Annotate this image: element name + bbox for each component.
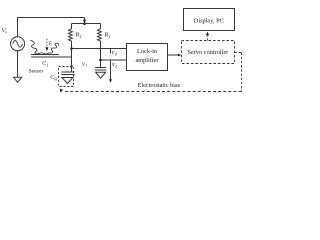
node V2 dot (99, 59, 102, 62)
tick for Vd (110, 49, 112, 54)
svg-text:CB: CB (50, 75, 57, 81)
wire node V2 to lock-in (101, 59, 127, 61)
svg-text:amplifier: amplifier (135, 57, 159, 64)
svg-text:Sensor: Sensor (29, 68, 44, 74)
wire bridge top bar (72, 23, 101, 25)
V2 arrow line down (110, 60, 112, 80)
dashed bias stub from servo right (235, 52, 242, 54)
wire node V1 to lock-in (72, 48, 127, 50)
bias arrowhead to sensor (60, 89, 64, 93)
wire lock-in to servo (168, 54, 180, 56)
wire R2 leg down (100, 42, 102, 68)
ground under C2 (96, 72, 106, 78)
wire rail drop with arrow (84, 18, 86, 21)
node V1 dot (70, 47, 73, 50)
F arrowhead (45, 47, 48, 51)
capacitor C2 plates (95, 67, 106, 69)
wire source bottom to ground (17, 50, 19, 77)
svg-text:F: F (48, 41, 53, 47)
svg-text:V1: V1 (82, 62, 87, 68)
svg-text:R1: R1 (76, 33, 82, 39)
force F dashed arrow (46, 39, 48, 48)
dashed bias bottom line (64, 91, 242, 93)
svg-text:R2: R2 (104, 33, 110, 39)
svg-text:Servo controller: Servo controller (188, 49, 230, 56)
label Vd (111, 50, 117, 56)
arrowhead into bridge (83, 20, 86, 24)
sensor membrane wavy line (31, 40, 59, 54)
label R2 (104, 33, 110, 39)
ground under CB (62, 78, 73, 84)
display PC box (184, 9, 235, 31)
svg-text:Lock-in: Lock-in (137, 48, 158, 55)
AC source sine wave (13, 41, 23, 48)
svg-text:Display, PC: Display, PC (194, 17, 224, 24)
svg-text:C1: C1 (42, 61, 48, 67)
label Sensor (29, 68, 44, 74)
wire sensor branch vertical (71, 49, 73, 73)
label C1 (42, 61, 48, 67)
label R1 (76, 33, 82, 39)
label Vs (2, 27, 8, 34)
AC source V1 circle (11, 37, 25, 51)
node CB junction dot (70, 65, 73, 68)
capacitor CB plates (62, 71, 75, 73)
label Electrostatic bias (138, 82, 181, 89)
dashed box around CB (59, 67, 74, 87)
V2 arrowhead (109, 79, 112, 83)
label CB (50, 75, 57, 81)
dashed bias right vertical (241, 53, 243, 92)
wire top rail (18, 17, 85, 19)
capacitor C1 bottom plate / wire to node V1 (31, 56, 72, 58)
resistor R1 (69, 24, 73, 49)
servo controller dashed box (182, 41, 235, 64)
arrowhead into servo (178, 54, 182, 57)
svg-text:Electrostatic bias: Electrostatic bias (138, 82, 181, 89)
lock-in amplifier box (127, 44, 168, 71)
arrowhead up into display (206, 32, 209, 36)
node junction dot (83, 22, 86, 25)
capacitor C1 top plate (31, 54, 59, 56)
ground symbol under source (14, 77, 22, 82)
label F (48, 41, 53, 47)
resistor R2 (98, 24, 102, 43)
label V2 (112, 63, 117, 69)
svg-text:V2: V2 (112, 63, 117, 69)
dashed stem servo to display (207, 36, 209, 41)
label V1 floating (82, 62, 87, 68)
wire source top to rail (17, 18, 19, 37)
